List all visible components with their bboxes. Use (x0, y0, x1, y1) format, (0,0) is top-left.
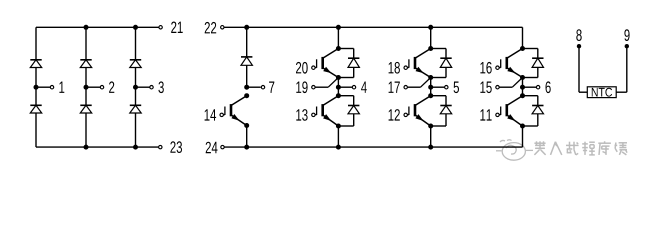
wire to DC- rail (337, 126, 339, 147)
junction bottom IGBT emitter (336, 124, 341, 129)
junction bottom IGBT collector (336, 93, 341, 98)
label 2 (109, 81, 114, 93)
diode freewheel bottom (HB3) (532, 106, 543, 114)
wire rectifier leg 2 vertical (85, 27, 87, 147)
diode freewheel top (HB2) branch wires (431, 48, 446, 50)
watermark text 嵌入式程序猿 (approximated strokes) (534, 141, 627, 155)
diode freewheel top (HB3) (532, 58, 543, 67)
transistor top IGBT (gate pin 18) (408, 49, 431, 78)
terminal 17 (aux emitter) (404, 86, 407, 89)
terminal 23 (159, 145, 162, 148)
diode freewheel bottom (HB1) (348, 106, 359, 114)
transistor bottom IGBT (gate pin 13) (315, 96, 338, 126)
diode D7 (brake) (241, 57, 252, 65)
terminal 13 (gate) (312, 113, 315, 116)
junction half-bridge 2 at DC- rail (428, 145, 433, 150)
bottom bus rail to terminal 23 (36, 146, 158, 148)
junction top rail leg2 (84, 25, 89, 30)
node phase output 4 (336, 85, 341, 90)
diode D1b (bottom of leg 1) (30, 105, 41, 113)
label 16 (480, 62, 491, 74)
terminal 7 (261, 86, 264, 89)
wire stub to terminal 2 (86, 86, 100, 88)
diode D2t (top of leg 2) (80, 60, 91, 68)
wire to DC- rail (522, 126, 524, 147)
terminal 5 (445, 86, 448, 89)
diode freewheel bottom (HB2) (440, 106, 451, 114)
wire aux emitter 15 (500, 86, 513, 88)
wire phase node vertical (337, 78, 339, 96)
terminal 3 (150, 86, 153, 89)
diode freewheel bottom (HB3) branch wires (523, 95, 538, 97)
terminal 1 (50, 86, 53, 89)
terminal 4 (352, 86, 355, 89)
label 19 (296, 81, 307, 93)
wire stub to terminal 5 (431, 86, 445, 88)
diode freewheel bottom (HB1) branch wires (338, 95, 353, 97)
node phase output 5 (428, 85, 433, 90)
wire stub to terminal 6 (523, 86, 537, 88)
label 14 (205, 109, 217, 120)
wire phase node vertical (522, 78, 524, 96)
terminal 22 (221, 26, 224, 29)
wire NTC left (578, 46, 580, 92)
wire brake leg lower (246, 126, 248, 148)
transistor top IGBT (gate pin 16) (499, 49, 522, 78)
junction half-bridge 1 at DC- rail (336, 145, 341, 150)
transistor top IGBT (gate pin 20) (315, 49, 338, 78)
wire HB2 from DC+ to collector (430, 27, 432, 48)
junction top rail leg3 (133, 25, 138, 30)
terminal 12 (gate) (404, 113, 407, 116)
diode D1t (top of leg 1) (30, 60, 41, 68)
label 17 (389, 82, 400, 93)
junction top IGBT emitter (428, 75, 433, 80)
junction half-bridge 1 at DC+ rail (336, 25, 341, 30)
watermark logo circle (496, 140, 533, 160)
wire NTC right (626, 46, 628, 92)
node 7 junction (244, 85, 249, 90)
junction top IGBT collector (428, 46, 433, 51)
label 9 (624, 29, 629, 41)
label 4 (361, 82, 367, 93)
wire rectifier leg 3 vertical (135, 27, 137, 147)
wire aux emitter 19 (315, 86, 328, 88)
label 24 (206, 142, 218, 154)
junction brake leg at DC- rail (244, 145, 249, 150)
junction bottom rail leg2 (84, 145, 89, 150)
wire stub to terminal 1 (36, 86, 50, 88)
junction top IGBT collector (520, 46, 525, 51)
junction brake leg at DC+ rail (244, 25, 249, 30)
node phase output 6 (520, 85, 525, 90)
junction Q7 emitter (244, 123, 249, 128)
label 5 (454, 82, 459, 94)
diode D3t (top of leg 3) (130, 60, 141, 68)
diode freewheel top (HB2) (440, 58, 451, 67)
terminal 11 (gate) (496, 113, 499, 116)
wire rectifier leg 1 vertical (35, 27, 37, 147)
label 23 (170, 141, 182, 153)
NTC thermistor box (587, 87, 616, 98)
terminal 21 (159, 26, 162, 29)
terminal 18 (gate) (404, 66, 407, 69)
label 6 (546, 81, 551, 93)
junction Q7 collector (244, 93, 249, 98)
label 11 (480, 109, 491, 120)
diode D3b (bottom of leg 3) (130, 105, 141, 113)
junction top IGBT emitter (336, 75, 341, 80)
wire phase node vertical (430, 78, 432, 96)
label 7 (269, 82, 274, 93)
label 22 (205, 22, 217, 34)
wire stub to terminal 4 (338, 86, 352, 88)
node AC input 2 junction (84, 85, 89, 90)
node AC input 3 junction (133, 85, 138, 90)
label 1 (59, 82, 64, 93)
wire stub to terminal 7 (247, 86, 261, 88)
terminal 20 (gate) (312, 66, 315, 69)
terminal 16 (gate) (496, 66, 499, 69)
label 3 (158, 81, 163, 93)
label 13 (296, 109, 307, 121)
transistor Q7 (brake IGBT, gate pin 14) (224, 96, 247, 126)
wire brake leg upper (246, 27, 248, 87)
terminal 8 dot (577, 44, 581, 48)
label 15 (480, 82, 491, 94)
label 18 (389, 62, 400, 74)
terminal 2 (100, 86, 103, 89)
junction bottom IGBT emitter (520, 124, 525, 129)
terminal 9 dot (625, 44, 629, 48)
terminal 6 (536, 86, 539, 89)
junction top IGBT collector (336, 46, 341, 51)
label 12 (389, 109, 400, 121)
wire stub to terminal 3 (136, 86, 150, 88)
DC- rail from 24 (225, 146, 523, 148)
label 20 (296, 62, 308, 74)
diode freewheel top (HB1) branch wires (338, 48, 353, 50)
diode D2b (bottom of leg 2) (80, 105, 91, 113)
transistor bottom IGBT (gate pin 11) (499, 96, 522, 126)
terminal 19 (aux emitter) (312, 86, 315, 89)
junction bottom IGBT collector (520, 93, 525, 98)
junction bottom IGBT emitter (428, 124, 433, 129)
node AC input 1 junction (34, 85, 39, 90)
transistor bottom IGBT (gate pin 12) (408, 96, 431, 126)
junction top IGBT emitter (520, 75, 525, 80)
label 21 (171, 22, 183, 34)
junction half-bridge 2 at DC+ rail (428, 25, 433, 30)
top bus rail to terminal 21 (36, 26, 159, 28)
wire HB3 from DC+ to collector (522, 27, 524, 48)
terminal 15 (aux emitter) (496, 86, 499, 89)
label NTC (592, 88, 612, 97)
label 8 (576, 29, 581, 41)
diode freewheel bottom (HB2) branch wires (431, 95, 446, 97)
terminal 14 (gate of Q7) (220, 113, 223, 116)
junction bottom rail leg3 (133, 145, 138, 150)
diode freewheel top (HB1) (348, 58, 359, 67)
junction bottom IGBT collector (428, 93, 433, 98)
terminal 24 (221, 145, 224, 148)
wire HB1 from DC+ to collector (337, 27, 339, 48)
DC+ rail from 22 (224, 26, 522, 28)
diode freewheel top (HB3) branch wires (523, 48, 538, 50)
wire aux emitter 17 (408, 86, 421, 88)
wire to DC- rail (430, 126, 432, 147)
